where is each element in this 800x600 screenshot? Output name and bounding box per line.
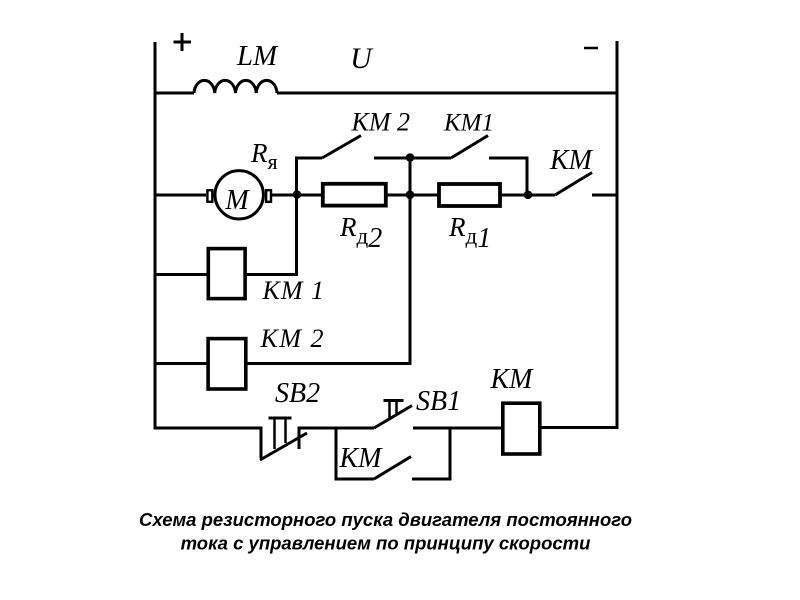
svg-text:SB1: SB1 xyxy=(416,386,461,417)
contact KM1 blade xyxy=(451,136,488,159)
contact KM2 blade xyxy=(322,136,361,159)
svg-text:KM1: KM1 xyxy=(443,110,494,137)
button SB2 blade (NC) xyxy=(260,433,307,460)
wire: Rd1 to KM contact xyxy=(500,194,555,197)
plus polarity symbol vertical xyxy=(181,33,184,51)
wire: KM2 coil left lead xyxy=(154,362,208,365)
node: Rd1/KM junction xyxy=(524,191,533,200)
svg-text:KM 1: KM 1 xyxy=(262,276,326,305)
wire: top wire right of inductor xyxy=(277,92,617,95)
wire: KM holding branch bottom right xyxy=(412,478,452,481)
button SB2 left post xyxy=(260,427,263,459)
button SB2 right post xyxy=(298,427,301,450)
relay coil KM2 xyxy=(208,339,246,389)
wire: KM holding branch right riser xyxy=(449,427,452,481)
minus polarity symbol xyxy=(584,47,598,50)
button SB1 actuator left leg xyxy=(388,401,391,419)
inductor LM xyxy=(194,80,277,93)
svg-text:M: M xyxy=(224,185,250,216)
resistor Rd1 body xyxy=(439,184,500,206)
svg-text:LM: LM xyxy=(236,40,279,72)
svg-text:KM 2: KM 2 xyxy=(260,324,326,353)
button SB2 actuator left leg xyxy=(273,418,276,449)
wire: KM coil to right bus xyxy=(541,426,619,429)
motor brush right xyxy=(266,190,271,202)
svg-text:U: U xyxy=(350,42,374,75)
wire: KM2 bypass left segment xyxy=(295,157,322,160)
wire: KM holding branch left riser xyxy=(335,427,338,481)
contact KM blade (holding contact) xyxy=(374,457,411,480)
wire: SB2 to SB1 segment xyxy=(299,427,374,430)
wire: KM2/KM1 bypass middle segment xyxy=(374,157,451,160)
svg-text:KM: KM xyxy=(549,145,594,176)
motor M armature circle xyxy=(215,171,263,219)
resistor Rd2 body xyxy=(323,184,386,206)
svg-text:KM 2: KM 2 xyxy=(351,108,411,137)
svg-text:KM: KM xyxy=(339,443,384,474)
button SB1 actuator right leg xyxy=(395,401,398,414)
contact KM blade (main line contact) xyxy=(555,173,592,196)
wire: bypass right riser down to main line xyxy=(526,157,529,196)
wire: Rd2 to Rd1 xyxy=(387,194,439,197)
svg-text:тока с управлением по принципу: тока с управлением по принципу скорости xyxy=(181,533,591,554)
svg-text:SB2: SB2 xyxy=(275,378,320,409)
wire: KM2 coil right lead xyxy=(246,362,412,365)
button SB1 actuator bar xyxy=(384,399,404,402)
motor brush left xyxy=(207,190,212,202)
wire: SB1 to KM coil xyxy=(413,427,503,430)
node: bypass line junction xyxy=(406,153,415,162)
wire: right supply bus (-) xyxy=(616,41,619,429)
wire: riser from motor node up/down (node A vertical) xyxy=(295,157,298,277)
contactor coil KM xyxy=(503,403,540,454)
wire: top wire left of inductor xyxy=(154,92,195,95)
wire: bottom control line from left bus to SB2 xyxy=(154,427,262,430)
svg-text:Схема резисторного пуска двига: Схема резисторного пуска двигателя посто… xyxy=(139,509,632,530)
button SB2 actuator right leg xyxy=(284,418,287,443)
node: Rd2/Rd1 junction xyxy=(406,191,415,200)
wire: KM holding branch bottom left xyxy=(335,478,375,481)
wire: KM1 coil right lead xyxy=(246,273,299,276)
wire: armature line left (bus to motor) xyxy=(154,194,207,197)
plus polarity symbol horizontal xyxy=(174,41,192,44)
button SB1 blade (NO) xyxy=(374,406,412,429)
node: motor output junction xyxy=(293,190,302,199)
wire: KM1 coil left lead xyxy=(154,273,208,276)
relay coil KM1 xyxy=(208,249,245,299)
wire: left supply bus (+) xyxy=(154,42,157,430)
wire: KM contact to right bus xyxy=(592,194,619,197)
button SB2 actuator bar xyxy=(269,417,292,420)
wire: riser from bypass node down to KM2 coil xyxy=(409,157,412,366)
wire: KM1 bypass right segment xyxy=(489,157,529,160)
wire: motor to Rd2 xyxy=(271,194,323,197)
svg-text:KM: KM xyxy=(490,364,535,395)
